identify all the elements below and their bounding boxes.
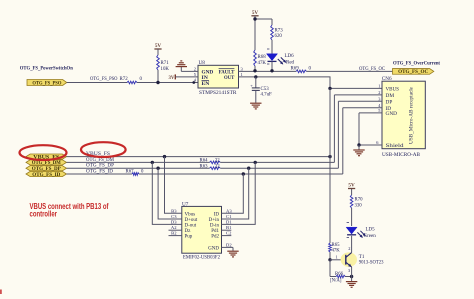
svg-text:C2: C2	[226, 231, 232, 236]
svg-text:Pd2: Pd2	[211, 235, 219, 240]
svg-text:5V: 5V	[252, 10, 259, 16]
svg-text:C1: C1	[226, 214, 232, 219]
svg-text:OTG_FS_OverCurrent: OTG_FS_OverCurrent	[393, 62, 440, 67]
svg-text:47K: 47K	[258, 61, 267, 66]
svg-text:+: +	[250, 83, 253, 88]
svg-text:9013-SOT23: 9013-SOT23	[359, 261, 384, 266]
svg-text:R65: R65	[332, 243, 341, 248]
svg-text:330: 330	[355, 204, 363, 209]
svg-text:GND: GND	[386, 111, 398, 117]
svg-text:USB_Micro-AB receptacle: USB_Micro-AB receptacle	[410, 86, 415, 144]
svg-text:OTG_FS_ID: OTG_FS_ID	[32, 173, 61, 178]
svg-text:R73: R73	[275, 28, 284, 33]
svg-text:Red: Red	[286, 60, 295, 65]
svg-text:B1: B1	[226, 225, 232, 230]
svg-text:B2: B2	[171, 231, 177, 236]
svg-text:R67: R67	[126, 170, 135, 175]
svg-text:B3: B3	[171, 208, 177, 213]
svg-text:ID: ID	[214, 212, 220, 217]
svg-text:D3: D3	[171, 219, 177, 224]
svg-text:2: 2	[194, 66, 196, 71]
svg-text:OTG_FS_PSO: OTG_FS_PSO	[90, 77, 118, 82]
svg-text:1: 1	[378, 84, 380, 89]
svg-text:STMPS2141STR: STMPS2141STR	[199, 90, 237, 96]
svg-text:OUT: OUT	[224, 75, 234, 81]
svg-text:3V: 3V	[169, 76, 175, 81]
svg-text:controller: controller	[30, 210, 58, 219]
svg-text:R71: R71	[161, 61, 170, 66]
svg-text:OTG_FS_PowerSwitchOn: OTG_FS_PowerSwitchOn	[20, 67, 73, 72]
svg-text:EN: EN	[202, 81, 211, 87]
svg-text:1: 1	[241, 72, 243, 77]
svg-text:A2: A2	[171, 225, 177, 230]
svg-text:OTG_FS_OC: OTG_FS_OC	[398, 70, 429, 75]
svg-text:GND: GND	[208, 246, 219, 251]
svg-text:Dz: Dz	[185, 229, 192, 234]
svg-text:22: 22	[215, 159, 220, 164]
svg-text:R70: R70	[355, 198, 364, 203]
svg-text:D-out: D-out	[185, 223, 197, 228]
svg-text:1: 1	[336, 255, 338, 260]
svg-text:LD5: LD5	[366, 228, 376, 233]
svg-text:R68: R68	[258, 55, 267, 60]
svg-text:CN6: CN6	[382, 76, 392, 82]
svg-text:U7: U7	[182, 201, 189, 207]
svg-text:620: 620	[275, 34, 283, 39]
svg-text:D1: D1	[226, 219, 232, 224]
svg-text:D-in: D-in	[210, 223, 220, 228]
svg-text:Green: Green	[364, 234, 377, 239]
svg-text:U8: U8	[199, 60, 206, 66]
svg-text:VBUS: VBUS	[386, 87, 400, 93]
svg-text:22: 22	[215, 164, 220, 169]
svg-text:OTG_FS_PSO: OTG_FS_PSO	[32, 81, 61, 86]
svg-text:D2: D2	[226, 242, 232, 247]
svg-text:47K: 47K	[332, 249, 341, 254]
svg-text:DM: DM	[386, 93, 395, 99]
svg-text:A3: A3	[226, 208, 232, 213]
svg-text:R69: R69	[291, 66, 300, 71]
svg-text:Shield: Shield	[386, 143, 404, 149]
svg-text:DP: DP	[386, 99, 393, 105]
svg-text:LD6: LD6	[285, 54, 295, 59]
svg-text:D+in: D+in	[209, 218, 220, 223]
svg-text:USB-MICRO-AB: USB-MICRO-AB	[382, 152, 420, 158]
svg-text:10K: 10K	[161, 67, 170, 72]
svg-text:2: 2	[348, 246, 350, 251]
svg-text:5V: 5V	[348, 183, 355, 189]
svg-text:R64: R64	[200, 159, 209, 164]
svg-text:C53: C53	[261, 87, 270, 92]
svg-text:R63: R63	[200, 164, 209, 169]
svg-text:OTG_FS_OC: OTG_FS_OC	[359, 67, 386, 72]
svg-text:EMIF02-USB03F2: EMIF02-USB03F2	[183, 255, 220, 261]
svg-text:Vbus: Vbus	[185, 212, 196, 217]
svg-text:[N/A]: [N/A]	[330, 279, 342, 284]
svg-text:4.7uF: 4.7uF	[261, 93, 273, 98]
svg-text:5V: 5V	[155, 43, 162, 49]
svg-text:C3: C3	[171, 214, 177, 219]
svg-text:T1: T1	[359, 255, 365, 260]
svg-text:R66: R66	[335, 272, 344, 277]
svg-text:Pd1: Pd1	[211, 229, 219, 234]
svg-text:R72: R72	[120, 77, 129, 82]
svg-text:D+out: D+out	[185, 218, 198, 223]
svg-text:Pup: Pup	[185, 235, 193, 240]
